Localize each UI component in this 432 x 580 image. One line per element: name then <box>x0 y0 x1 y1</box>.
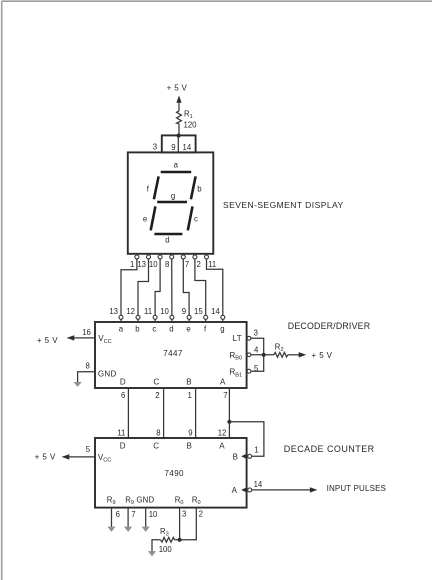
wire 7490 pin A to input pulses arrow <box>252 489 311 491</box>
display pin 13 <box>137 254 150 269</box>
svg-text:D: D <box>120 442 126 451</box>
svg-text:2: 2 <box>155 391 159 400</box>
svg-text:11: 11 <box>208 260 216 269</box>
ground arrow at R3 <box>148 551 156 556</box>
resistor R3 <box>161 537 175 542</box>
svg-text:8: 8 <box>165 260 169 269</box>
svg-text:d: d <box>165 235 169 244</box>
svg-text:C: C <box>153 442 159 451</box>
svg-text:R0: R0 <box>192 496 201 507</box>
svg-text:3: 3 <box>182 509 186 518</box>
7490 pin 1 input B <box>233 445 259 461</box>
7490 pin 2 R0 <box>175 496 203 540</box>
power +5V supply node at R1 top <box>167 84 188 103</box>
svg-text:5: 5 <box>86 445 91 454</box>
svg-text:R9: R9 <box>107 496 116 507</box>
junction R0 pins at R3 <box>178 538 182 542</box>
svg-text:12: 12 <box>126 307 135 316</box>
svg-text:7: 7 <box>185 260 189 269</box>
svg-text:R0: R0 <box>175 496 184 507</box>
wire display pin 11 to 7447 pin 14 <box>207 259 223 316</box>
wire display pin 8 to 7447 pin 10 <box>171 259 173 316</box>
svg-text:5: 5 <box>254 364 259 373</box>
display pin 2 <box>193 254 201 269</box>
7447 pin 15 input f <box>194 307 208 334</box>
junction RB0 bus <box>262 353 266 357</box>
segment g <box>157 191 187 202</box>
resistor R2 <box>274 352 288 357</box>
svg-text:RB0: RB0 <box>230 351 243 362</box>
segment e <box>143 206 156 230</box>
svg-text:2: 2 <box>199 509 203 518</box>
segment a <box>161 161 192 172</box>
svg-text:d: d <box>169 325 173 334</box>
svg-text:+ 5 V: + 5 V <box>35 452 56 461</box>
svg-text:7447: 7447 <box>163 349 183 358</box>
ground arrow at 7490 pin 6 <box>107 527 115 532</box>
svg-text:13: 13 <box>109 307 118 316</box>
ground arrow at 7447 pin 8 <box>74 382 82 387</box>
svg-text:e: e <box>143 215 147 224</box>
svg-text:4: 4 <box>254 346 259 355</box>
segment c <box>188 206 198 230</box>
wire R2 to +5V arrow <box>288 354 300 356</box>
label R3 value 100 <box>159 527 173 554</box>
svg-text:6: 6 <box>121 391 125 400</box>
display pin 10 <box>149 254 162 269</box>
resistor R1 <box>177 111 182 124</box>
svg-text:VCC: VCC <box>98 453 111 464</box>
svg-text:8: 8 <box>156 428 160 437</box>
display top pin box pins 3 9 14 <box>153 135 196 152</box>
7447 pin 6 output D <box>120 378 126 400</box>
7447 pin 4 RB0 <box>230 346 260 362</box>
7490 pin 5 VCC <box>67 445 111 464</box>
svg-text:a: a <box>119 325 124 334</box>
svg-text:11: 11 <box>144 307 152 316</box>
wire display pin 7 to 7447 pin 9 <box>183 259 189 316</box>
svg-text:12: 12 <box>218 428 227 437</box>
power +5V at R2 <box>299 351 333 360</box>
wire R1 to display pin box <box>178 124 180 136</box>
7447 pin 1 output B <box>186 378 192 400</box>
wire 7447 B to 7490 pin 9 <box>195 388 197 438</box>
7447 pin 9 input e <box>182 307 191 334</box>
svg-text:f: f <box>147 184 150 193</box>
svg-text:14: 14 <box>183 143 192 152</box>
svg-text:15: 15 <box>194 307 203 316</box>
junction A wire to counter B feedback <box>227 420 231 424</box>
svg-text:c: c <box>152 325 156 334</box>
svg-text:3: 3 <box>254 329 258 338</box>
7490 pin 10 GND <box>136 496 158 527</box>
svg-text:10: 10 <box>149 510 158 519</box>
svg-text:6: 6 <box>116 510 120 519</box>
7490 pin 3 R0 <box>175 496 187 540</box>
7447 pin 12 input b <box>126 307 140 334</box>
7447 pin 16 VCC <box>72 328 112 345</box>
svg-text:A: A <box>219 442 225 451</box>
svg-text:INPUT PULSES: INPUT PULSES <box>327 484 386 493</box>
svg-text:DECADE COUNTER: DECADE COUNTER <box>284 444 375 454</box>
wire display pin 2 to 7447 pin 15 <box>195 259 206 316</box>
wire 7447 C to 7490 pin 8 <box>163 388 165 438</box>
svg-text:R2: R2 <box>275 342 284 353</box>
display pin 7 <box>181 254 189 269</box>
svg-text:14: 14 <box>211 307 220 316</box>
svg-text:9: 9 <box>182 307 186 316</box>
svg-text:14: 14 <box>254 480 263 489</box>
svg-text:16: 16 <box>82 328 91 337</box>
svg-text:b: b <box>197 184 202 193</box>
svg-text:a: a <box>174 161 179 170</box>
svg-text:g: g <box>171 191 175 200</box>
wire 7447 D to 7490 pin 11 <box>127 388 129 438</box>
decade counter U2 7490 body <box>95 438 247 508</box>
svg-text:LT: LT <box>233 334 242 343</box>
wire R3 to ground <box>152 540 161 552</box>
wire display pin 1 to 7447 pin 13 <box>121 259 137 316</box>
svg-text:GND: GND <box>136 496 154 505</box>
svg-text:R1: R1 <box>184 110 193 121</box>
svg-text:1: 1 <box>130 260 134 269</box>
decoder/driver U1 7447 body <box>95 322 247 388</box>
7447 pin 2 output C <box>154 378 160 400</box>
7490 pin 7 R9 <box>125 496 135 527</box>
power +5V at 7490 pin 5 <box>35 452 70 461</box>
svg-text:+ 5 V: + 5 V <box>312 351 333 360</box>
segment b <box>191 176 202 199</box>
svg-text:SEVEN-SEGMENT DISPLAY: SEVEN-SEGMENT DISPLAY <box>223 200 344 210</box>
wire 7447 A to 7490 pin 12 <box>228 388 230 438</box>
junction at display pin-box top <box>177 134 181 138</box>
svg-text:1: 1 <box>254 445 258 454</box>
7447 pin 8 GND <box>78 361 117 382</box>
svg-text:g: g <box>220 325 224 334</box>
svg-text:A: A <box>220 378 226 387</box>
wire LT RB0 RB1 tie bus <box>251 338 264 371</box>
svg-text:11: 11 <box>117 428 125 437</box>
svg-text:B: B <box>233 453 238 462</box>
7447 pin 14 input g <box>211 307 225 334</box>
svg-text:R9: R9 <box>125 496 134 507</box>
svg-text:10: 10 <box>149 260 158 269</box>
svg-text:B: B <box>187 442 192 451</box>
svg-text:A: A <box>232 486 238 495</box>
svg-text:3: 3 <box>153 143 157 152</box>
svg-text:R3: R3 <box>160 527 169 538</box>
svg-text:RB1: RB1 <box>230 368 243 379</box>
svg-text:VCC: VCC <box>98 334 111 345</box>
svg-text:7: 7 <box>223 391 227 400</box>
display pin 1 <box>130 254 139 269</box>
svg-text:C: C <box>154 378 160 387</box>
seven-segment display module box <box>128 152 214 253</box>
7447 pin 5 RB1 <box>230 364 260 378</box>
wire display pin 13 to 7447 pin 12 <box>138 259 149 316</box>
wire feedback junction to 7490 pin 1 B <box>229 422 264 457</box>
svg-text:13: 13 <box>137 260 146 269</box>
7447 pin 10 input d <box>160 307 174 334</box>
power +5V at 7447 pin 16 <box>37 335 74 345</box>
wire display pin 10 to 7447 pin 11 <box>155 259 160 316</box>
svg-text:B: B <box>186 378 191 387</box>
svg-text:10: 10 <box>160 307 169 316</box>
svg-text:2: 2 <box>197 260 201 269</box>
display pin 11 <box>205 254 217 269</box>
svg-text:100: 100 <box>159 545 173 554</box>
input pulses arrow and label <box>310 484 386 493</box>
7447 pin 13 input a <box>109 307 123 334</box>
svg-text:1: 1 <box>187 391 191 400</box>
svg-text:f: f <box>204 325 207 334</box>
7447 pin 11 input c <box>144 307 157 334</box>
label R1 value 120 <box>184 110 198 130</box>
svg-text:+ 5 V: + 5 V <box>167 84 188 93</box>
svg-text:GND: GND <box>98 370 117 379</box>
svg-text:DECODER/DRIVER: DECODER/DRIVER <box>288 321 370 331</box>
ground arrow at 7490 pin 7 <box>124 527 132 532</box>
svg-text:120: 120 <box>184 120 198 129</box>
display pin 8 <box>165 254 174 269</box>
svg-text:b: b <box>135 325 140 334</box>
svg-text:8: 8 <box>86 361 90 370</box>
segment d <box>154 234 182 244</box>
wire RB0 to R2 <box>251 354 274 356</box>
svg-text:e: e <box>186 325 190 334</box>
svg-text:9: 9 <box>188 428 192 437</box>
svg-text:7: 7 <box>131 510 135 519</box>
7490 pin 6 R9 <box>107 496 120 527</box>
svg-text:9: 9 <box>171 143 175 152</box>
7490 pin 14 input A <box>232 480 263 495</box>
svg-text:D: D <box>120 378 126 387</box>
ground arrow at 7490 pin 10 <box>142 527 150 532</box>
svg-text:c: c <box>194 215 198 224</box>
wire +5V arrow to R1 <box>178 102 180 111</box>
svg-text:+ 5 V: + 5 V <box>37 336 58 345</box>
7447 pin 3 LT <box>233 329 258 343</box>
svg-text:7490: 7490 <box>165 469 185 478</box>
7447 pin 7 output A <box>220 378 228 400</box>
segment f <box>147 176 159 199</box>
